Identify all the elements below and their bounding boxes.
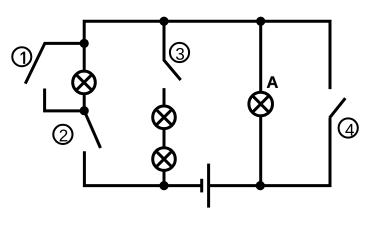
node: junction dot bottom rail / middle branch	[159, 181, 168, 190]
switch label 2	[53, 125, 72, 144]
node: junction dot left branch lower	[80, 106, 89, 115]
lamp L1 (left branch)	[73, 71, 96, 94]
node: junction dot left branch upper	[80, 39, 89, 48]
switch label 3	[170, 43, 189, 62]
switch S1 lower contact wire	[45, 89, 85, 111]
switch S3 upper wire and blade	[164, 21, 181, 80]
node: junction dot bottom rail / lamp A branch	[256, 181, 265, 190]
switch S3 lower contact wire	[163, 88, 166, 186]
switch label 1	[12, 47, 31, 66]
switch S4 blade	[330, 98, 346, 118]
wire: top rail with left branch vertical and right upper vertical	[84, 21, 330, 111]
switch S2 blade	[84, 111, 100, 148]
node: junction dot top rail / middle branch	[159, 17, 168, 26]
wire: bottom-right rail with switch-4 lower vertical	[209, 118, 330, 186]
wire: bottom-left rail with switch-2 lower stub	[84, 151, 201, 185]
switch label 4	[339, 118, 358, 137]
battery BT1 short plate	[200, 179, 203, 193]
lamp A (right middle branch)	[249, 92, 273, 116]
wire: ammeter lamp branch vertical	[259, 21, 262, 185]
battery BT1 long plate	[207, 164, 210, 208]
lamp L2 (middle branch upper)	[153, 106, 176, 129]
lamp L3 (middle branch lower)	[153, 148, 176, 171]
node: junction dot top rail / lamp A branch	[256, 17, 265, 26]
label A for lamp	[267, 76, 278, 87]
switch S1 blade and top horizontal	[25, 43, 84, 83]
